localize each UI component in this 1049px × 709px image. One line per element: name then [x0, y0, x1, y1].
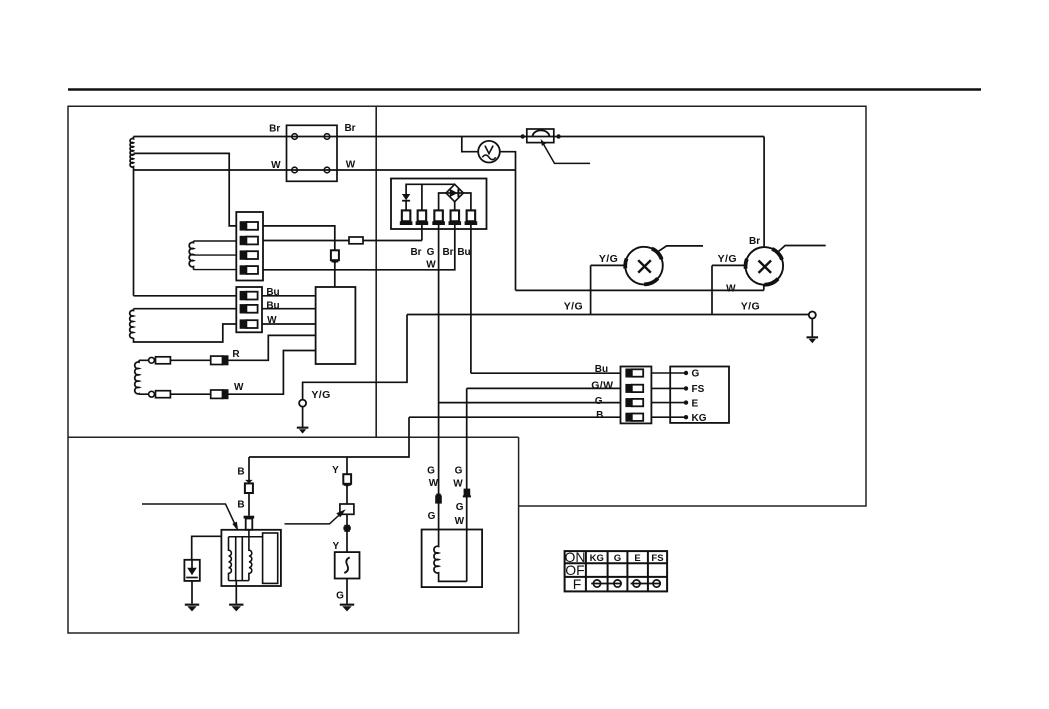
- junction dot left of F1: [521, 134, 525, 138]
- wire diamond right to T5: [463, 193, 471, 211]
- wire B down to ignition coil: [248, 457, 250, 516]
- svg-text:W: W: [453, 479, 463, 490]
- wire G/W down to exciter: [466, 388, 468, 581]
- svg-text:W: W: [426, 259, 436, 270]
- connector block CN1 (4-pole) body: [236, 212, 263, 281]
- contact dots: [684, 371, 688, 375]
- enclosure frame (main unit outline): [68, 106, 866, 633]
- magneto charge coil L2: [189, 241, 193, 270]
- svg-text:G: G: [427, 247, 435, 258]
- wire L2 bottom to CN1 pin4: [194, 269, 237, 271]
- wire: Br drop to voltmeter: [462, 137, 478, 152]
- ignition secondary coil: [249, 530, 252, 581]
- svg-text:Y: Y: [332, 541, 339, 552]
- svg-text:KG: KG: [692, 413, 707, 424]
- wire CN2 pin3 to CDI: [262, 323, 316, 325]
- svg-text:W: W: [429, 478, 439, 489]
- wire B down/left jog: [249, 417, 409, 457]
- wire RU T1 top link rail to T2 and diamond: [406, 184, 455, 210]
- wire L1 spine down to Bu feed: [133, 170, 135, 296]
- wire Bu: L1 spine to CN2 pin1: [134, 295, 237, 297]
- wire W: coil L1 bottom to voltmeter drop junction: [134, 169, 516, 171]
- RU terminal 4: [449, 210, 462, 225]
- svg-text:Br: Br: [344, 123, 355, 134]
- SW1 lever: [285, 512, 344, 524]
- headlamp bulb 2: [746, 246, 826, 285]
- compartment divider: [375, 106, 377, 437]
- svg-text:KG: KG: [590, 553, 604, 564]
- CN2 terminals: [240, 291, 258, 329]
- svg-text:FS: FS: [692, 384, 705, 395]
- svg-text:F: F: [573, 576, 582, 592]
- wire CN3 to FS contact: [651, 387, 686, 389]
- wire G/W to CN3: [467, 387, 621, 389]
- wire G branch to CN3: [439, 402, 621, 404]
- voltmeter V1: [478, 141, 500, 163]
- svg-text:B: B: [237, 466, 244, 477]
- flasher unit box: [335, 552, 360, 578]
- wire diamond left to T3: [439, 193, 446, 211]
- wire exciter bottom link: [439, 573, 467, 581]
- junction dot right of F1: [556, 134, 560, 138]
- rectifier unit RU box: [391, 179, 487, 230]
- svg-text:Br: Br: [269, 123, 280, 134]
- exciter coil winding: [434, 546, 439, 573]
- pointer arrow to fuse F1: [544, 145, 590, 164]
- svg-text:Br: Br: [410, 247, 421, 258]
- spark plug cap on ignition coil: [244, 516, 255, 530]
- ground under flasher: [340, 604, 354, 612]
- wire Bu: rectifier T5 down: [470, 225, 472, 374]
- fuse F1 (main): [527, 129, 554, 143]
- bullet connector on R row: [149, 357, 171, 364]
- wire lamp1 left lead: [591, 264, 625, 266]
- wire W lamp bus: [516, 289, 764, 291]
- top horizontal rule: [68, 88, 981, 90]
- wire flasher to earth: [346, 579, 348, 604]
- svg-text:E: E: [692, 398, 699, 409]
- svg-text:W: W: [346, 160, 356, 171]
- wire R row: [139, 335, 316, 360]
- bottom compartment right edge upper part: [518, 437, 520, 506]
- spark plug electrode: [186, 560, 198, 578]
- resistor on W row: [211, 389, 229, 399]
- svg-text:Y/G: Y/G: [741, 301, 760, 313]
- lighting switch SW1: [340, 504, 354, 514]
- svg-text:G: G: [614, 553, 621, 564]
- ignition coil box: [221, 530, 281, 586]
- svg-text:Bu: Bu: [595, 364, 608, 375]
- svg-text:Y/G: Y/G: [311, 389, 330, 401]
- svg-text:Bu: Bu: [457, 247, 470, 258]
- ignition coil top link: [229, 536, 263, 538]
- inline connector on B wire: [245, 480, 253, 493]
- svg-text:G: G: [427, 465, 435, 476]
- pointer line to ignition coil: [142, 504, 236, 527]
- RU terminal 3: [432, 210, 445, 225]
- wire lamp2 earth drop: [711, 265, 713, 314]
- CN3 terminals: [625, 369, 643, 422]
- ground below Y/G pigtail: [297, 427, 309, 434]
- headlamp bulb 1: [625, 246, 703, 285]
- svg-text:Br: Br: [442, 247, 453, 258]
- svg-text:W: W: [726, 284, 736, 295]
- wire plug to earth: [191, 581, 193, 604]
- wire Br: CN1 pin2 to rectifier via fuse F2: [263, 225, 422, 241]
- Y/G pigtail connector circle: [299, 400, 306, 407]
- wire CN2 pin2 to CDI: [262, 308, 316, 310]
- svg-text:G/W: G/W: [591, 379, 613, 391]
- svg-text:FS: FS: [651, 553, 663, 564]
- ignition coil inner core frame: [263, 533, 278, 583]
- svg-text:Bu: Bu: [266, 301, 279, 312]
- ground under spark plug: [185, 604, 199, 612]
- wire lamp1 earth drop: [590, 265, 592, 314]
- svg-text:Br: Br: [749, 236, 760, 247]
- svg-text:G: G: [455, 465, 463, 476]
- ignition primary coil: [229, 537, 232, 581]
- bullet connector on W row: [149, 391, 171, 398]
- Y/G bus earth circle: [809, 312, 816, 319]
- svg-text:G: G: [336, 590, 344, 601]
- svg-text:Y/G: Y/G: [718, 253, 737, 265]
- ignition coil bottom link: [229, 580, 249, 582]
- exciter coil box: [422, 530, 483, 588]
- wire Bu to CN3: [471, 372, 621, 374]
- wire Y/G earth bus: [407, 314, 809, 316]
- svg-text:B: B: [596, 410, 603, 421]
- wire: voltmeter to W bus vertical: [500, 152, 516, 291]
- bottom compartment top edge: [68, 436, 519, 438]
- wire CN3 to E contact: [651, 402, 686, 404]
- ground under ignition coil: [229, 604, 243, 612]
- svg-text:E: E: [634, 553, 640, 564]
- connector box CB1 (4-pole): [287, 125, 338, 181]
- RU terminal 1: [400, 210, 413, 225]
- svg-text:Y/G: Y/G: [599, 253, 618, 265]
- fuse F2: [349, 237, 363, 244]
- magneto source coil L3: [130, 309, 134, 338]
- svg-text:G: G: [595, 396, 603, 407]
- wire ignition coil earth: [235, 581, 237, 604]
- flasher symbol: [344, 558, 350, 574]
- svg-text:G: G: [428, 511, 436, 522]
- wire CN1 pin1 to CDI feed (down): [263, 226, 335, 287]
- inline connector on CDI feed: [331, 250, 339, 264]
- wire Br vertical to lamp2: [763, 137, 765, 248]
- svg-text:R: R: [232, 349, 240, 360]
- svg-text:G: G: [692, 369, 700, 380]
- svg-text:B: B: [237, 499, 244, 510]
- wire diamond bottom to T4: [454, 202, 456, 211]
- RU terminal 2: [416, 210, 429, 225]
- magneto pickup coil L4: [135, 360, 139, 394]
- wire L1 mid tap to block CN1 pin1: [134, 153, 237, 226]
- inline connector on Y wire: [343, 474, 351, 488]
- wire L2 mid to CN1 pin3: [194, 254, 237, 256]
- wire bus circle to ground: [811, 319, 813, 337]
- svg-text:W: W: [455, 516, 465, 527]
- svg-text:Y: Y: [332, 465, 339, 476]
- spark plug box: [184, 560, 199, 581]
- wire W row: [139, 351, 316, 395]
- ground below Y/G bus: [807, 336, 819, 343]
- inline connector on G/W wire: [463, 489, 471, 498]
- wire Y switch feed: [346, 457, 348, 552]
- svg-text:G: G: [456, 502, 464, 513]
- wire B to CN3: [409, 416, 621, 418]
- CDI unit box: [316, 287, 356, 364]
- wire L3 top to CN2 pin2: [134, 308, 237, 310]
- wire pigtail to ground: [302, 407, 304, 427]
- wire coil to spark plug: [192, 536, 222, 560]
- wire CN3 to G contact: [651, 372, 686, 374]
- wire Br: coil L1 top to headlamp branch: [134, 136, 765, 138]
- wire CN2 pin1 to CDI: [262, 295, 316, 297]
- SW1 lower connector: [343, 525, 350, 532]
- svg-text:W: W: [234, 382, 244, 393]
- wire stub lamp2 bottom: [763, 284, 765, 290]
- magneto lighting coil L1: [130, 137, 133, 171]
- connector block CN2 (3-pole) body: [236, 287, 262, 332]
- svg-text:W: W: [271, 160, 281, 171]
- RU terminal 5: [465, 210, 478, 225]
- engine stop switch box: [670, 367, 729, 423]
- resistor on R row: [211, 355, 229, 365]
- svg-text:Y/G: Y/G: [564, 301, 583, 313]
- wire L3 bottom jog to CN2 pin3: [134, 324, 237, 342]
- ignition core bars: [235, 537, 237, 581]
- inline connector on G wire: [435, 494, 442, 504]
- table contact circles row F: [591, 580, 661, 587]
- wire W: CN1 pin4 to rectifier: [263, 225, 455, 270]
- RU diode diamond D2: [446, 184, 463, 201]
- wire lamp2 left lead: [712, 264, 745, 266]
- CN1 terminals: [240, 221, 258, 274]
- connector block CN3 (4-pole) body: [621, 367, 652, 424]
- wire L2 top to CN1 pin2: [194, 240, 237, 242]
- RU diode D1: [402, 194, 410, 211]
- stop switch table frame: [565, 551, 668, 591]
- wire CN3 to KG contact: [651, 416, 686, 418]
- CB1 pin circles: [292, 134, 330, 173]
- wire G: rectifier T3 down to exciter coil: [438, 225, 440, 546]
- wire Y/G pigtail: [303, 315, 407, 400]
